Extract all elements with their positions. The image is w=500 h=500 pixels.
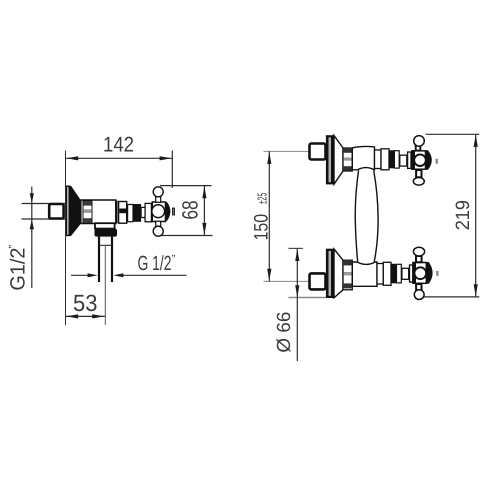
bottom rings bbox=[343, 260, 352, 290]
handle bottom arm + ball bbox=[153, 221, 163, 236]
valve body (horizontal) bbox=[81, 200, 116, 224]
top rings bbox=[343, 148, 352, 171]
bonnet rings right of body bbox=[117, 201, 152, 224]
top body bbox=[352, 146, 374, 169]
svg-text:219: 219 bbox=[453, 200, 474, 230]
dim 68 bbox=[160, 186, 213, 236]
bottom assembly centerline bbox=[264, 280, 310, 282]
top cone bbox=[334, 136, 343, 185]
bottom wall plate bbox=[326, 249, 334, 298]
svg-text:142: 142 bbox=[103, 133, 134, 157]
dim 142 bbox=[66, 133, 173, 188]
cross handle hub (side) bbox=[152, 202, 175, 222]
svg-text:±25: ±25 bbox=[254, 193, 269, 205]
bottom cone bbox=[334, 249, 343, 298]
dim G1/2 (left, rotated) bbox=[7, 187, 34, 291]
bottom inlet nut bbox=[310, 273, 326, 289]
svg-text:150: 150 bbox=[250, 214, 272, 241]
svg-text:68: 68 bbox=[178, 200, 203, 219]
dim 219 bbox=[424, 134, 480, 297]
svg-text:”: ” bbox=[172, 254, 176, 266]
wire: left extension line (wall face) bbox=[65, 151, 67, 326]
dim 150 +-25 bbox=[250, 151, 272, 281]
top inlet nut bbox=[310, 144, 326, 160]
bottom body bbox=[352, 262, 377, 286]
union nut on inlet pipe bbox=[49, 204, 63, 219]
central column bbox=[355, 170, 378, 261]
svg-text:Ø 66: Ø 66 bbox=[274, 312, 295, 353]
dim O66 bbox=[274, 248, 327, 361]
inlet pipe (left, into wall) bbox=[22, 203, 67, 205]
top assembly centerline bbox=[264, 150, 310, 152]
svg-text:G 1/2: G 1/2 bbox=[138, 252, 172, 275]
outlet below body bbox=[95, 223, 118, 282]
dim 53 bbox=[66, 290, 105, 318]
svg-text:G1/2: G1/2 bbox=[7, 248, 30, 291]
svg-text:53: 53 bbox=[73, 290, 98, 316]
wall flange (escutcheon), side view bbox=[66, 186, 81, 237]
handle top arm + ball bbox=[153, 187, 163, 203]
outlet centerline bbox=[104, 246, 106, 325]
top handle stack bbox=[375, 136, 438, 186]
bottom handle stack bbox=[377, 247, 439, 299]
top wall plate bbox=[326, 135, 334, 184]
svg-text:”: ” bbox=[8, 245, 20, 249]
label G 1/2 (outlet) with arrows bbox=[71, 252, 187, 278]
